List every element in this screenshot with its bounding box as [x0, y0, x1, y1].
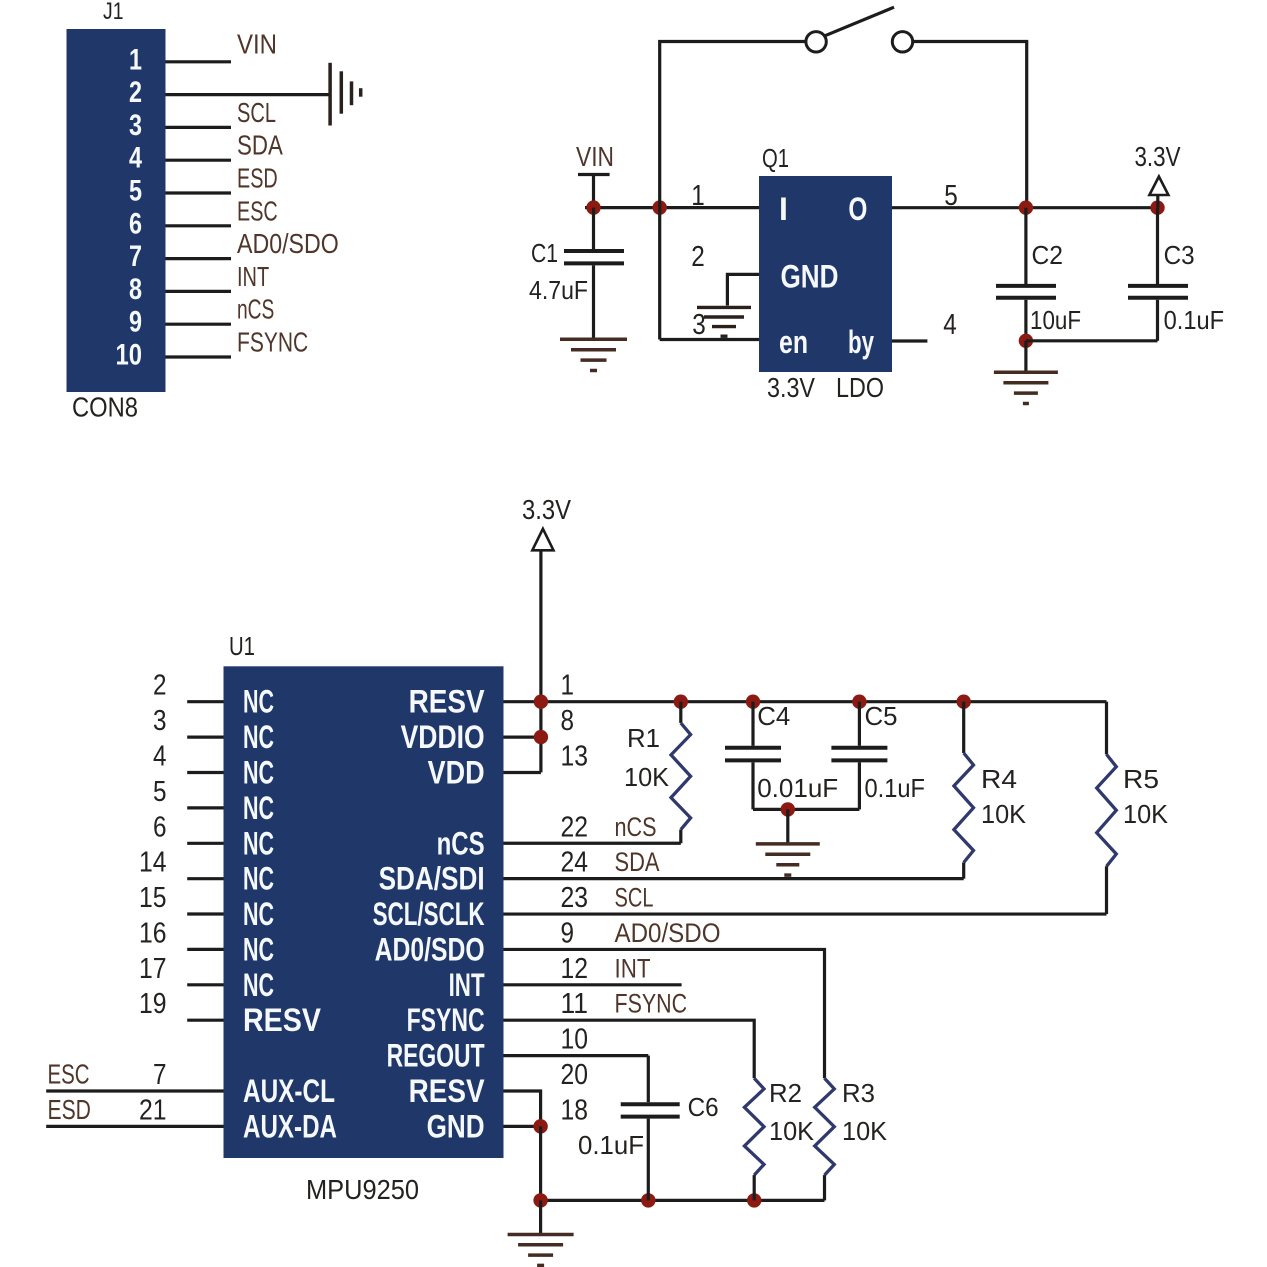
- J1 pin 8 wire: [166, 290, 232, 293]
- svg-text:ESC: ESC: [237, 195, 278, 226]
- svg-text:GND: GND: [781, 259, 839, 295]
- svg-text:10: 10: [561, 1024, 589, 1056]
- svg-text:C2: C2: [1032, 240, 1064, 270]
- svg-text:R3: R3: [842, 1078, 875, 1108]
- U1 pin 6 wire (left): [187, 842, 223, 845]
- svg-text:SCL/SCLK: SCL/SCLK: [373, 896, 485, 932]
- svg-text:C1: C1: [531, 238, 558, 268]
- junction dot VDDIO/3.3V: [534, 730, 548, 744]
- svg-text:ESC: ESC: [48, 1059, 90, 1090]
- wire VIN to input node: [592, 175, 595, 208]
- wire INT pin 12: [504, 983, 682, 986]
- ground (C2/C3): [994, 341, 1058, 404]
- svg-text:FSYNC: FSYNC: [615, 989, 688, 1019]
- junction dot R1 top: [674, 695, 688, 709]
- wire Q1 GND pin 2: [727, 274, 759, 305]
- wire switch to output node: [913, 42, 1027, 208]
- J1 pin 4 wire: [166, 159, 232, 162]
- svg-text:12: 12: [561, 953, 589, 985]
- svg-text:23: 23: [561, 882, 589, 914]
- U1 pin 14 wire (left): [187, 877, 223, 880]
- capacitor C3: [1128, 208, 1224, 341]
- svg-text:AUX-DA: AUX-DA: [243, 1108, 337, 1144]
- svg-text:NC: NC: [243, 719, 274, 755]
- svg-text:C5: C5: [865, 701, 898, 731]
- svg-text:FSYNC: FSYNC: [237, 327, 308, 358]
- svg-text:ESD: ESD: [237, 163, 278, 194]
- svg-text:en: en: [779, 324, 808, 360]
- svg-text:11: 11: [561, 988, 589, 1020]
- J1 pin 9 wire: [166, 323, 232, 326]
- svg-text:2: 2: [691, 241, 705, 273]
- svg-text:4: 4: [153, 741, 167, 773]
- power flag 3.3V (U1 VDD): [522, 494, 571, 550]
- junction dot output/C3: [1150, 201, 1164, 215]
- svg-text:O: O: [848, 191, 867, 227]
- svg-text:NC: NC: [243, 896, 274, 932]
- junction dot output/C2: [1019, 201, 1033, 215]
- wire RESV pin 20: [504, 1091, 541, 1126]
- power net label VIN: [576, 141, 614, 175]
- svg-text:1: 1: [561, 670, 575, 702]
- svg-text:RESV: RESV: [409, 1073, 486, 1109]
- svg-text:U1: U1: [229, 631, 255, 661]
- wire SCL pin 23: [504, 912, 1107, 915]
- svg-text:10K: 10K: [842, 1116, 888, 1146]
- svg-text:C3: C3: [1164, 240, 1195, 270]
- svg-text:C6: C6: [688, 1092, 719, 1122]
- svg-text:R1: R1: [627, 723, 660, 753]
- U1 pin 15 wire (left): [187, 912, 223, 915]
- wire C2 to C3 bottom: [1026, 339, 1158, 342]
- svg-text:AUX-CL: AUX-CL: [243, 1073, 335, 1109]
- svg-text:MPU9250: MPU9250: [306, 1174, 419, 1205]
- svg-text:Q1: Q1: [762, 143, 789, 173]
- svg-text:3: 3: [129, 109, 142, 142]
- wire RESV pin 1 rail: [504, 700, 1107, 703]
- wire 3.3V to U1 power pins: [539, 550, 542, 772]
- svg-text:0.01uF: 0.01uF: [757, 773, 838, 803]
- svg-text:RESV: RESV: [409, 684, 486, 720]
- svg-text:4: 4: [129, 142, 142, 175]
- U1 pin 21 wire (left): [46, 1125, 223, 1128]
- J1 pin 10 wire: [166, 355, 232, 358]
- switch S1: [806, 7, 913, 52]
- junction dot RESV/GND: [533, 1119, 547, 1133]
- resistor R1: [624, 702, 691, 844]
- svg-text:6: 6: [129, 207, 142, 240]
- svg-text:C4: C4: [757, 701, 790, 731]
- svg-text:SCL: SCL: [615, 883, 654, 913]
- svg-text:GND: GND: [427, 1108, 485, 1144]
- junction dot C4/C5 bottom: [781, 802, 795, 816]
- svg-text:0.1uF: 0.1uF: [865, 773, 926, 803]
- svg-text:R4: R4: [981, 764, 1017, 794]
- svg-text:SCL: SCL: [237, 97, 276, 128]
- svg-text:NC: NC: [243, 825, 274, 861]
- J1 pin 2 wire: [166, 93, 331, 96]
- svg-text:21: 21: [139, 1094, 167, 1126]
- capacitor C6: [578, 1056, 719, 1201]
- U1 pin 2 wire (left): [187, 700, 223, 703]
- svg-text:15: 15: [139, 882, 167, 914]
- svg-text:NC: NC: [243, 684, 274, 720]
- svg-text:0.1uF: 0.1uF: [578, 1130, 644, 1160]
- svg-text:24: 24: [561, 847, 589, 879]
- svg-text:3.3V: 3.3V: [767, 372, 815, 403]
- svg-text:ESD: ESD: [48, 1094, 91, 1125]
- resistor R3: [815, 1078, 888, 1200]
- capacitor C5: [831, 701, 925, 809]
- svg-text:REGOUT: REGOUT: [387, 1038, 485, 1074]
- svg-text:1: 1: [129, 43, 142, 76]
- svg-text:INT: INT: [237, 261, 269, 292]
- svg-text:CON8: CON8: [72, 392, 138, 423]
- U1 pin 4 wire (left): [187, 771, 223, 774]
- svg-text:6: 6: [153, 811, 167, 843]
- svg-text:5: 5: [129, 175, 142, 208]
- svg-text:VIN: VIN: [576, 141, 614, 172]
- resistor R4: [954, 702, 1027, 879]
- wire SDA pin 24: [504, 877, 964, 880]
- svg-text:10K: 10K: [769, 1116, 815, 1146]
- svg-text:20: 20: [561, 1059, 589, 1091]
- junction dot ground rail R2: [747, 1193, 761, 1207]
- svg-text:0.1uF: 0.1uF: [1164, 305, 1225, 335]
- svg-text:LDO: LDO: [836, 372, 884, 403]
- svg-text:I: I: [779, 191, 788, 227]
- svg-text:AD0/SDO: AD0/SDO: [237, 228, 339, 259]
- svg-text:AD0/SDO: AD0/SDO: [375, 931, 485, 967]
- svg-text:2: 2: [129, 76, 142, 109]
- svg-text:NC: NC: [243, 967, 274, 1003]
- ground (C4/C5): [756, 809, 820, 875]
- svg-text:NC: NC: [243, 755, 274, 791]
- J1 pin 6 wire: [166, 224, 232, 227]
- junction dot C4 top: [746, 695, 760, 709]
- svg-text:NC: NC: [243, 931, 274, 967]
- svg-text:J1: J1: [103, 0, 124, 25]
- svg-text:7: 7: [153, 1059, 167, 1091]
- ground (J1 pin 2, rotated earth): [330, 63, 361, 126]
- junction dot input/switch branch: [653, 200, 667, 214]
- wire nCS pin 22: [504, 842, 681, 845]
- svg-text:NC: NC: [243, 861, 274, 897]
- junction dot ground rail left: [533, 1193, 547, 1207]
- svg-text:13: 13: [561, 741, 589, 773]
- wire input node to Q1 pin 1: [585, 206, 759, 209]
- wire REGOUT pin 10: [504, 1054, 649, 1057]
- wire ground rail: [541, 1199, 825, 1202]
- J1 pin 5 wire: [166, 191, 232, 194]
- junction dot 3.3V/pin1: [534, 695, 548, 709]
- svg-text:10K: 10K: [624, 762, 670, 792]
- svg-text:AD0/SDO: AD0/SDO: [615, 918, 721, 948]
- regulator Q1 body: [759, 176, 892, 372]
- resistor R5: [1097, 702, 1169, 914]
- junction dot R4 top: [957, 695, 971, 709]
- ground (C1): [560, 339, 627, 370]
- svg-text:SDA: SDA: [615, 847, 660, 877]
- capacitor C2: [996, 208, 1081, 341]
- svg-text:2: 2: [153, 670, 167, 702]
- svg-text:nCS: nCS: [615, 812, 657, 842]
- U1 pin 17 wire (left): [187, 983, 223, 986]
- wire FSYNC pin 11: [504, 1020, 755, 1078]
- svg-text:R2: R2: [769, 1078, 802, 1108]
- svg-text:INT: INT: [615, 953, 651, 983]
- svg-text:VIN: VIN: [237, 28, 277, 59]
- wire Q1 output pin 5: [892, 206, 1158, 209]
- wire C4-C5 bottom: [753, 808, 859, 811]
- wire Q1 en pin 3: [660, 338, 759, 341]
- junction dot ground rail C6: [641, 1193, 655, 1207]
- svg-text:8: 8: [129, 273, 142, 306]
- svg-text:10: 10: [116, 339, 143, 372]
- svg-text:INT: INT: [449, 967, 485, 1003]
- svg-text:1: 1: [691, 180, 705, 212]
- svg-text:14: 14: [139, 847, 167, 879]
- power flag 3.3V (regulator output): [1135, 141, 1181, 208]
- svg-text:by: by: [848, 324, 874, 360]
- svg-text:10K: 10K: [981, 799, 1027, 829]
- U1 pin 7 wire (left): [46, 1089, 223, 1092]
- wire VDD pin 13: [504, 771, 541, 774]
- svg-text:16: 16: [139, 917, 167, 949]
- capacitor C4: [725, 701, 838, 809]
- U1 pin 19 wire (left): [187, 1019, 223, 1022]
- wire AD0/SDO pin 9: [504, 949, 825, 1078]
- U1 pin 16 wire (left): [187, 948, 223, 951]
- wire VDDIO pin 8: [504, 735, 541, 738]
- svg-text:3.3V: 3.3V: [522, 494, 571, 525]
- svg-text:3: 3: [153, 705, 167, 737]
- svg-text:FSYNC: FSYNC: [407, 1002, 485, 1038]
- svg-text:VDDIO: VDDIO: [401, 719, 485, 755]
- svg-text:NC: NC: [243, 790, 274, 826]
- svg-text:9: 9: [129, 306, 142, 339]
- svg-text:5: 5: [153, 776, 167, 808]
- wire Q1 by pin 4: [892, 339, 927, 342]
- U1 pin 3 wire (left): [187, 735, 223, 738]
- junction dot VIN/C1: [586, 200, 600, 214]
- svg-text:18: 18: [561, 1094, 589, 1126]
- svg-text:17: 17: [139, 953, 167, 985]
- resistor R2: [744, 1078, 814, 1200]
- svg-text:nCS: nCS: [237, 294, 274, 325]
- svg-text:22: 22: [561, 811, 589, 843]
- junction dot C2 bottom: [1019, 334, 1033, 348]
- svg-text:3: 3: [692, 309, 706, 341]
- J1 pin 1 wire: [166, 60, 232, 63]
- connector J1 body: [67, 29, 166, 392]
- svg-text:9: 9: [561, 917, 575, 949]
- svg-text:19: 19: [139, 988, 167, 1020]
- svg-text:R5: R5: [1123, 764, 1159, 794]
- svg-text:10uF: 10uF: [1030, 305, 1081, 335]
- svg-text:10K: 10K: [1123, 799, 1169, 829]
- ground (U1 GND): [508, 1200, 574, 1265]
- svg-text:8: 8: [561, 705, 575, 737]
- J1 pin 3 wire: [166, 126, 232, 129]
- svg-text:nCS: nCS: [437, 825, 485, 861]
- ic U1 body: [224, 666, 504, 1158]
- wire GND pin 18: [504, 1125, 541, 1128]
- wire input node to switch: [660, 42, 807, 340]
- svg-text:4: 4: [943, 309, 957, 341]
- capacitor C1: [529, 208, 624, 340]
- svg-text:SDA: SDA: [237, 130, 283, 161]
- svg-text:SDA/SDI: SDA/SDI: [379, 861, 485, 897]
- wire GND to ground rail: [539, 1126, 542, 1200]
- svg-text:RESV: RESV: [243, 1002, 322, 1038]
- J1 pin 7 wire: [166, 257, 232, 260]
- U1 pin 5 wire (left): [187, 806, 223, 809]
- svg-text:7: 7: [129, 240, 142, 273]
- svg-text:3.3V: 3.3V: [1135, 141, 1181, 172]
- ground (Q1 pin 2): [697, 307, 751, 336]
- svg-text:VDD: VDD: [428, 755, 485, 791]
- svg-text:4.7uF: 4.7uF: [529, 275, 588, 305]
- junction dot C5 top: [852, 695, 866, 709]
